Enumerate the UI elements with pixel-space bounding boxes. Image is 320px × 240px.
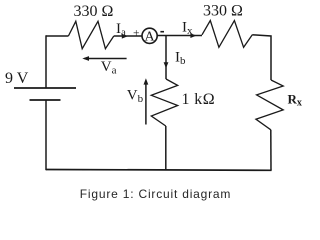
svg-text:Ia: Ia <box>116 21 126 39</box>
battery V1 positive plate <box>14 87 76 89</box>
current arrow Ix (arrowhead on wire) <box>190 33 196 38</box>
wire top-left segment (top rail from node A to R1) <box>46 35 68 37</box>
svg-text:+: + <box>133 28 140 40</box>
resistor R1 330 ohm (top left, zigzag) <box>68 21 113 48</box>
bottom rail wire <box>46 169 272 172</box>
ammeter minus sign <box>160 31 164 33</box>
svg-text:Figure 1: Circuit diagram: Figure 1: Circuit diagram <box>80 187 231 201</box>
resistor Rx (right vertical, zigzag) <box>256 80 283 130</box>
svg-text:Ix: Ix <box>182 20 193 38</box>
wire Rx to bottom-right corner <box>270 130 272 171</box>
svg-text:A: A <box>145 30 156 45</box>
wire R1 to ammeter <box>114 35 142 37</box>
svg-text:330 Ω: 330 Ω <box>203 2 243 19</box>
svg-text:1 kΩ: 1 kΩ <box>182 91 216 108</box>
wire R3 to bottom rail <box>165 126 167 170</box>
svg-text:Va: Va <box>101 59 117 77</box>
current arrow Ib (arrowhead on wire, pointing down) <box>164 62 169 68</box>
svg-text:330 Ω: 330 Ω <box>74 3 114 20</box>
resistor R3 1 kohm (middle vertical, zigzag) <box>151 79 177 126</box>
wire left rail top (node A down to battery) <box>45 35 47 88</box>
voltage arrow Va (pointing left) <box>85 58 127 60</box>
svg-text:9 V: 9 V <box>5 70 29 87</box>
node B junction to Ib branch <box>165 36 167 80</box>
wire R2 to top-right corner <box>252 35 271 80</box>
svg-text:Rx: Rx <box>288 91 302 108</box>
voltage arrow Vb (pointing up) <box>145 81 147 125</box>
resistor R2 330 ohm (top right, zigzag) <box>202 21 252 48</box>
ammeter U1 (circle) <box>142 28 157 43</box>
wire battery to bottom-left corner <box>45 100 47 170</box>
svg-text:Ib: Ib <box>175 50 186 67</box>
svg-text:Vb: Vb <box>127 88 144 106</box>
current arrow Ia (arrowhead on wire) <box>122 34 128 39</box>
wire ammeter to R2 (through node B) <box>157 35 202 37</box>
battery V1 negative plate <box>30 99 61 101</box>
